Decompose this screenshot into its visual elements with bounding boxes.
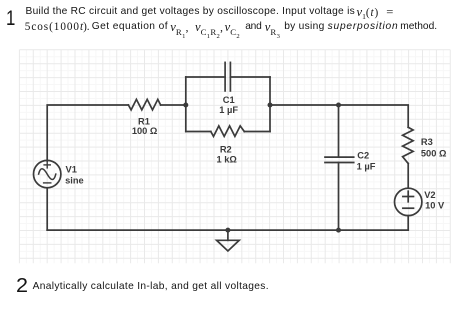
resistor R1 (128, 99, 160, 110)
node A junction dot (183, 103, 188, 108)
svg-text:500 Ω: 500 Ω (421, 148, 447, 158)
voltage source V1 (34, 160, 61, 187)
capacitor C2 (325, 157, 354, 162)
node ground junction dot (225, 228, 230, 233)
problem text 1 line 2 (25, 21, 90, 33)
wire: node B to R3 branch (270, 105, 408, 127)
label R3 (421, 137, 447, 159)
svg-text:sine: sine (65, 176, 84, 186)
wire: C1 to box right (230, 76, 270, 78)
wire: R2 to box right (244, 131, 270, 133)
wire: bottom rail (47, 229, 408, 231)
resistor R2 (211, 126, 245, 136)
label C1 (219, 95, 238, 115)
label V1 (65, 165, 84, 186)
node C2-bottom junction dot (336, 228, 341, 233)
problem text 2 (33, 281, 269, 292)
capacitor C1 (225, 62, 230, 91)
wire: C2 branch upper (338, 105, 340, 157)
wire: V2 to bottom rail (407, 216, 409, 231)
wire: V1 to bottom rail (46, 188, 48, 230)
svg-text:R2: R2 (220, 144, 232, 154)
node C2-top junction dot (336, 103, 341, 108)
wire: top branch to C1 (186, 76, 225, 78)
wire: R3 to V2 (407, 164, 409, 189)
label R1 (132, 116, 158, 136)
label V2 (424, 190, 445, 211)
svg-text:R1: R1 (138, 116, 150, 126)
wire: parallel box left vertical (185, 77, 187, 132)
label C2 (357, 151, 376, 172)
voltage source V2 (395, 188, 422, 215)
wire: R1 to node A (161, 104, 186, 106)
problem text 1 line 1 (26, 6, 356, 17)
item number 2 (16, 275, 28, 298)
wire: bottom branch to R2 (186, 131, 211, 133)
svg-text:V1: V1 (66, 165, 77, 175)
svg-text:1 µF: 1 µF (219, 105, 238, 115)
svg-text:C1: C1 (223, 95, 235, 105)
svg-text:1 kΩ: 1 kΩ (217, 155, 238, 165)
ground (217, 230, 240, 251)
svg-text:100 Ω: 100 Ω (132, 126, 158, 136)
node B junction dot (268, 103, 273, 108)
svg-text:C2: C2 (357, 151, 369, 161)
svg-text:V2: V2 (424, 190, 435, 200)
svg-text:R3: R3 (421, 137, 433, 147)
item number 1 (6, 6, 15, 31)
svg-text:10 V: 10 V (425, 201, 445, 211)
wire: top-left from corner to R1 (47, 105, 128, 161)
wire: parallel box right vertical (269, 77, 271, 132)
resistor R3 (403, 127, 414, 163)
label R2 (217, 144, 238, 164)
svg-text:1 µF: 1 µF (357, 161, 376, 171)
wire: C2 branch lower (338, 163, 340, 231)
